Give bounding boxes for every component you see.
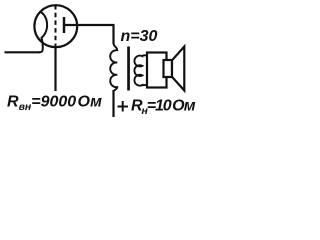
svg-text:Rн=10Ом: Rн=10Ом (131, 98, 196, 118)
transformer T1 primary winding (110, 43, 117, 92)
cathode lead wire (5, 51, 40, 53)
transformer T1 core (127, 47, 130, 91)
tube V1 cathode (38, 12, 47, 53)
svg-text:Rвн=9000Ом: Rвн=9000Ом (7, 94, 102, 114)
plus sign (118, 101, 129, 112)
primary bottom lead with + (112, 90, 114, 117)
tube V1 grid (dashed) (55, 5, 57, 48)
speaker voice coil (secondary) (134, 55, 147, 85)
tube V1 anode (63, 17, 66, 33)
speaker driver rect (164, 60, 173, 77)
tube V1 envelope (34, 5, 77, 47)
speaker body (147, 53, 167, 88)
svg-text:n=30: n=30 (121, 28, 158, 45)
grid lead wire (54, 48, 56, 92)
anode wire to transformer (64, 25, 114, 44)
speaker horn (172, 47, 184, 91)
